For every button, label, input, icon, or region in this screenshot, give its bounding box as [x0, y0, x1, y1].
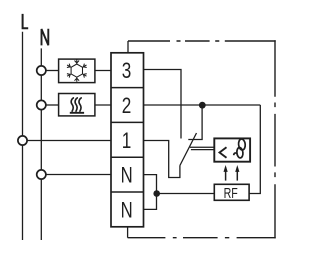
terminal divider 3/2 — [111, 87, 144, 89]
heating load box — [59, 94, 95, 116]
junction dot A — [199, 102, 206, 109]
wire terminal 2 to right rail — [144, 104, 261, 106]
RF box — [214, 184, 249, 200]
terminal divider 1/N — [111, 156, 144, 158]
wire cooling box to terminal 3 — [95, 70, 111, 72]
thermostat less-than symbol — [220, 147, 227, 158]
terminal divider 2/1 — [111, 121, 144, 123]
enclosure top tab — [127, 41, 129, 53]
wire terminal 1 to switch pivot — [144, 141, 180, 178]
snowflake icon — [67, 59, 87, 81]
enclosure dash-dot border top — [128, 40, 276, 42]
wire N circle to heating box — [46, 104, 59, 106]
cooling load box — [59, 59, 95, 83]
wire junction B to RF — [157, 193, 215, 195]
terminal block outline — [111, 53, 144, 227]
wire N terminal to junction rail — [144, 175, 157, 210]
wire L line — [22, 32, 24, 240]
switch contact from node A — [188, 105, 202, 140]
svg-text:RF: RF — [224, 184, 238, 201]
terminal circle on L (terminal 1 row) — [18, 136, 27, 145]
terminal circle on N (terminal N row) — [37, 170, 46, 179]
wire RF to right rail — [249, 105, 260, 194]
terminal divider N/N — [111, 191, 144, 193]
terminal circle on N (cooling row) — [37, 66, 46, 75]
node N label — [42, 29, 49, 46]
wire N circle to cooling box — [46, 70, 59, 72]
sensor arrow 2 — [236, 168, 238, 181]
svg-text:3: 3 — [122, 59, 132, 84]
enclosure dash-dot border right — [274, 40, 276, 238]
thermostat theta symbol — [234, 139, 246, 158]
wire N circle to terminal N — [46, 174, 111, 176]
junction dot B — [153, 190, 160, 197]
node L label — [23, 14, 29, 28]
terminal circle on N (heating row) — [37, 100, 46, 109]
wire N line — [40, 48, 42, 240]
wire heating box to terminal 2 — [95, 104, 111, 106]
switch blade — [180, 133, 197, 166]
wire L circle to terminal 1 — [27, 140, 111, 142]
enclosure dash-dot border bottom — [128, 237, 276, 239]
mechanical link to thermostat — [190, 147, 215, 149]
svg-text:1: 1 — [122, 129, 132, 154]
svg-text:2: 2 — [122, 94, 132, 119]
wire terminal 3 to switch contact — [144, 70, 182, 139]
svg-text:N: N — [121, 163, 133, 188]
thermostat U1 box — [214, 138, 250, 161]
svg-text:N: N — [121, 198, 133, 223]
enclosure bottom tab — [127, 227, 129, 238]
heater icon — [70, 98, 84, 113]
sensor arrow 1 — [225, 168, 227, 181]
